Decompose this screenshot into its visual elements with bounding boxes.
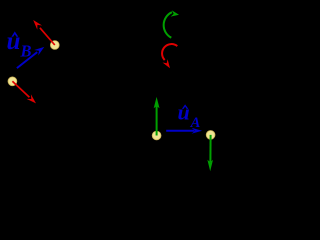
velocity vector at point A-left (green, up) <box>154 97 160 136</box>
svg-text:B: B <box>20 41 32 60</box>
point B (yellow dot, top) <box>50 41 59 50</box>
rotation arc red (counterclockwise indicator) <box>162 44 177 68</box>
velocity vector at point A-right (green, down) <box>207 135 213 171</box>
rotation arc green (clockwise indicator, top right) <box>164 10 179 37</box>
svg-text:A: A <box>190 115 201 131</box>
velocity vector at second left point (red, down-right) <box>12 81 36 103</box>
point A-right (yellow dot) <box>206 131 215 140</box>
point lower-left (yellow dot) <box>8 77 17 86</box>
unit vector u_A arrow (blue, horizontal) <box>166 128 202 134</box>
label u_B hat <box>11 31 18 36</box>
point A-left (yellow dot) <box>152 131 161 140</box>
label u_A hat <box>182 104 189 109</box>
velocity vector at point B (red, up-left) <box>33 20 55 45</box>
unit vector u_B arrow (blue, up-right) <box>17 47 44 68</box>
svg-text:u: u <box>7 28 21 55</box>
svg-text:u: u <box>178 100 190 125</box>
